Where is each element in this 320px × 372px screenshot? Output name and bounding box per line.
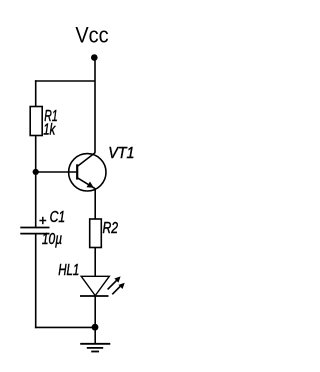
svg-text:Vcc: Vcc [75,22,108,47]
wire emitter to R2 [94,189,96,219]
wire left rail upper [35,80,37,106]
node Vcc dot [91,54,98,61]
ground bar 3 [91,351,99,353]
svg-text:C1: C1 [50,209,66,226]
ground bar 2 [87,347,103,349]
wire bottom horizontal [35,326,95,328]
transistor VT1 emitter arrowhead [87,182,94,188]
transistor VT1 emitter line [77,178,95,189]
node base junction dot [33,169,39,175]
wire top horizontal [35,80,95,82]
LED HL1 cathode bar [80,295,109,297]
wire R2 to LED [94,248,96,277]
transistor VT1 circle [69,154,106,191]
wire left rail C1 to bottom [35,234,37,328]
svg-text:VT1: VT1 [108,145,134,162]
wire Vcc dot to collector (right rail top) [94,59,96,153]
wire left rail R1 to C1 [35,136,37,227]
ground stem [94,327,96,343]
transistor VT1 collector line [77,153,95,167]
LED HL1 triangle (anode) [81,276,109,295]
capacitor C1 bottom plate [20,233,49,235]
svg-text:HL1: HL1 [58,262,79,279]
LED HL1 emission arrow 2 [112,283,124,295]
wire LED to bottom junction [94,296,96,327]
LED HL1 emission arrow 1 [108,276,121,289]
ground bar 1 [80,343,110,345]
capacitor C1 plus sign [39,217,46,224]
resistor R2 body [90,219,102,248]
transistor VT1 base bar [76,164,78,179]
wire base [36,171,77,173]
svg-text:10µ: 10µ [42,231,62,248]
svg-text:R2: R2 [103,220,119,237]
resistor R1 body [30,107,42,136]
capacitor C1 top plate [20,227,49,229]
node bottom junction dot [92,324,99,331]
svg-text:1k: 1k [43,122,56,139]
